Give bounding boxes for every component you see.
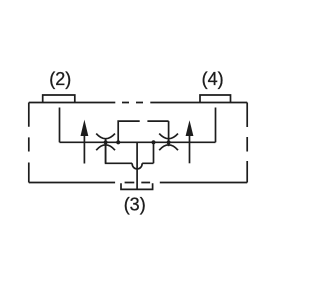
enclosure boundary bottom [29, 182, 247, 184]
port 4 tab [200, 95, 231, 103]
svg-text:(3): (3) [124, 194, 146, 214]
svg-text:(4): (4) [202, 69, 224, 89]
orifice right arcs [159, 134, 178, 151]
node junction dot right orifice [167, 140, 171, 144]
wire bridge top right segment [147, 120, 168, 122]
svg-text:(2): (2) [49, 69, 71, 89]
wire orifice right through-line up to bridge top [168, 121, 170, 146]
wire collector left riser and shelf [106, 142, 133, 163]
wire orifice left through-line down to collector [105, 139, 107, 164]
wire main horizontal line [60, 141, 216, 143]
orifice left arcs [96, 134, 115, 151]
enclosure boundary right [246, 103, 248, 183]
arrowhead left [81, 120, 89, 136]
wire port 2 line [59, 108, 61, 143]
collector cup dip [132, 163, 142, 169]
enclosure boundary left [28, 103, 30, 183]
wire port 3 center line [136, 142, 138, 189]
arrow right flow [189, 133, 191, 163]
enclosure boundary top [29, 102, 247, 104]
node junction dot left orifice [104, 140, 108, 144]
arrowhead right [186, 120, 194, 136]
node junction dot collector right riser [151, 140, 155, 144]
wire collector right shelf and riser [142, 142, 153, 163]
wire port 4 line [215, 108, 217, 143]
port 3 tab [121, 183, 153, 189]
port 2 tab [43, 95, 75, 103]
arrow left flow [83, 133, 85, 164]
wire bridge left leg [118, 121, 140, 142]
node junction dot bridge left leg [116, 140, 120, 144]
